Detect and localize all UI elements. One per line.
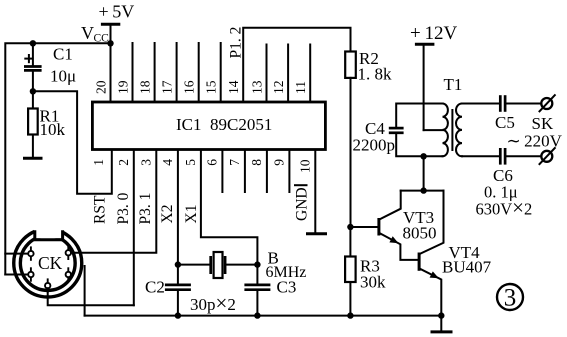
svg-text:BU407: BU407	[442, 258, 492, 277]
svg-text:9: 9	[271, 159, 286, 166]
wire CK shell to ground rail	[84, 266, 86, 316]
terminal SK top	[541, 98, 552, 109]
svg-text:11: 11	[293, 81, 308, 94]
wire pin14 P1.2 to R2	[243, 28, 350, 102]
node collector junction	[420, 187, 426, 193]
svg-text:19: 19	[116, 80, 131, 94]
svg-text:15: 15	[204, 80, 219, 94]
connector CK inner ring	[20, 236, 75, 291]
svg-text:8: 8	[249, 159, 264, 166]
svg-text:IC1 89C2051: IC1 89C2051	[176, 115, 272, 134]
resistor R3	[349, 227, 351, 257]
wire pin2 P3.0 down	[133, 150, 135, 306]
svg-text:C5: C5	[495, 113, 515, 132]
svg-text:6: 6	[204, 159, 219, 166]
svg-text:C1: C1	[53, 45, 73, 64]
+5V supply	[101, 23, 120, 26]
svg-text:2: 2	[116, 159, 131, 166]
svg-text:+ 5V: + 5V	[99, 2, 135, 22]
transformer T1 primary winding	[443, 104, 448, 157]
resistor R2	[345, 52, 356, 78]
svg-text:13: 13	[250, 80, 265, 94]
svg-text:10k: 10k	[40, 120, 66, 139]
svg-text:10μ: 10μ	[50, 67, 76, 86]
svg-text:X1: X1	[183, 205, 200, 224]
capacitor C6	[462, 155, 500, 157]
op-amp U: IC1 89C2051 body	[92, 102, 325, 150]
node tank bottom junction	[420, 153, 426, 159]
wire collector to tank	[423, 156, 425, 190]
transformer T1 core	[451, 110, 453, 150]
wire pin5 X1 elbow to crystal	[201, 150, 258, 265]
svg-text:CK: CK	[38, 253, 63, 273]
node Vcc/pin20 junction	[107, 40, 113, 46]
node crystal left	[175, 261, 181, 267]
svg-text:P3. 1: P3. 1	[137, 193, 154, 225]
svg-text:X2: X2	[159, 205, 176, 224]
wire pin4 X2 down to crystal	[177, 150, 179, 265]
connector CK pins	[30, 246, 32, 251]
capacitor C4 tank loop	[396, 104, 442, 127]
wire CK bottom pin to P3.0	[48, 288, 134, 305]
svg-text:SK: SK	[532, 114, 554, 133]
wire left rail to CK mid-left pin	[5, 274, 28, 276]
crystal B 6MHz	[178, 264, 211, 266]
svg-text:3: 3	[138, 159, 153, 166]
svg-text:RST: RST	[92, 195, 109, 224]
svg-text:10: 10	[297, 159, 312, 173]
wire Vcc rail	[5, 43, 110, 274]
svg-text:4: 4	[160, 159, 175, 166]
+12V supply	[415, 43, 435, 46]
wire ground rail	[85, 315, 442, 317]
ground below R1	[23, 157, 43, 160]
resistor R1	[32, 91, 34, 108]
capacitor C1	[32, 43, 34, 65]
svg-text:30p×2: 30p×2	[190, 291, 236, 315]
capacitor C3	[256, 265, 258, 284]
svg-text:14: 14	[226, 80, 241, 94]
node rail junctions	[175, 312, 181, 318]
wire base node to VT3	[350, 226, 377, 228]
svg-text:P3. 0: P3. 0	[115, 192, 132, 224]
svg-text:V: V	[81, 23, 94, 43]
wires: IC top pin stubs 19..15	[132, 43, 134, 102]
transformer T1 secondary winding	[456, 104, 462, 157]
svg-text:630V×2: 630V×2	[476, 196, 533, 220]
svg-text:C2: C2	[145, 278, 165, 297]
node Vcc/C1 junction	[30, 40, 36, 46]
svg-text:30k: 30k	[360, 273, 386, 292]
wire left rail to CK upper-left pin	[5, 253, 28, 255]
wires: IC bottom pin stubs 6..9	[221, 150, 223, 193]
svg-text:8050: 8050	[403, 224, 437, 243]
transistor VT3 8050	[377, 218, 380, 236]
node VT3 base junction	[347, 224, 353, 230]
wires: IC top pin stubs 13..11	[266, 45, 268, 103]
capacitor C5	[462, 103, 500, 105]
wire RST node to IC pin 1	[33, 91, 112, 194]
connector CK key notch	[34, 223, 64, 239]
connector CK outer ring	[14, 229, 82, 297]
svg-text:1: 1	[91, 159, 106, 166]
node crystal right	[254, 261, 260, 267]
circled figure number 3	[497, 284, 523, 310]
svg-text:18: 18	[138, 80, 153, 94]
svg-text:T1: T1	[444, 75, 463, 94]
svg-text:1. 8k: 1. 8k	[358, 65, 393, 84]
wire pin10 GND down	[314, 150, 316, 233]
wire VT3/VT4 collectors	[401, 190, 444, 192]
ground at IC pin10	[306, 232, 327, 235]
svg-text:3: 3	[504, 285, 517, 312]
transistor VT4 BU407	[418, 253, 421, 271]
svg-text:16: 16	[182, 80, 197, 94]
wire pin3 P3.1 to CK top-right pin	[71, 150, 156, 253]
ground main	[440, 316, 442, 331]
node RST junction	[30, 88, 36, 94]
svg-text:P1. 2: P1. 2	[228, 27, 245, 59]
svg-text:GND: GND	[294, 187, 311, 221]
svg-text:12: 12	[271, 81, 286, 95]
svg-text:20: 20	[94, 80, 109, 94]
capacitor C2	[177, 265, 179, 284]
svg-text:+ 12V: + 12V	[410, 23, 458, 44]
svg-text:17: 17	[160, 80, 175, 94]
svg-text:5: 5	[183, 159, 198, 166]
terminal SK bottom	[541, 151, 552, 162]
svg-text:2200p: 2200p	[353, 136, 396, 155]
svg-text:7: 7	[227, 159, 242, 166]
GND overline mark	[295, 184, 307, 186]
svg-text:C3: C3	[277, 278, 297, 297]
